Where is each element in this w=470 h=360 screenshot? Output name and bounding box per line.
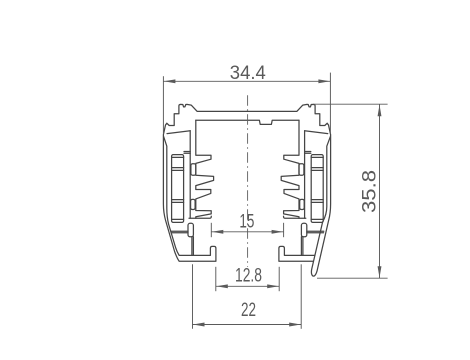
arrowhead dim 22 left (193, 323, 205, 327)
bottom shelf (189, 216, 211, 218)
dim 12.8 extension line right (278, 267, 280, 291)
spine block lower (191, 199, 196, 209)
dim 34.4 extension line left (162, 76, 164, 134)
dim 22 extension line right (300, 264, 302, 329)
centerline (247, 95, 249, 267)
profile left outer contour (163, 104, 247, 261)
arrowhead dim 35.8 top (378, 105, 382, 117)
spine block lower (300, 199, 305, 209)
shelf diagonal under ear (167, 131, 190, 134)
arrowhead dim 15 right (272, 230, 284, 234)
dim 15 extension tick left (210, 223, 212, 237)
arrowhead dim 12.8 right (267, 284, 279, 288)
svg-text:22: 22 (241, 300, 256, 321)
bridge to spine (305, 152, 311, 154)
right lip (279, 246, 315, 261)
arrowhead dim 15 left (212, 230, 224, 234)
bridge to spine (184, 152, 190, 154)
bottom block (301, 223, 306, 237)
arrowhead dim 34.4 left (164, 79, 176, 83)
arrowhead dim 22 right (289, 323, 301, 327)
dim 22 extension line left (192, 264, 194, 329)
insulator spine right face with comb fins (281, 120, 299, 218)
dimensions (163, 73, 387, 329)
insulator spine left face (189, 131, 191, 219)
rib to wall (171, 231, 188, 233)
spine block upper (299, 164, 304, 175)
dim 15 extension tick right (283, 223, 285, 237)
dim 34.4 dimension line (163, 80, 330, 82)
conductor channel column (172, 155, 184, 223)
dim 34.4 extension line right (329, 73, 331, 134)
svg-text:12.8: 12.8 (235, 265, 262, 286)
right interior comb (mirror) (281, 120, 328, 255)
svg-text:15: 15 (239, 211, 254, 232)
dim 35.8 extension line bottom (317, 277, 388, 279)
shelf diagonal under ear (305, 131, 328, 134)
dim 12.8 extension line left (215, 267, 217, 291)
spine block upper (191, 164, 196, 175)
conductor channel rungs (311, 157, 323, 219)
dim 15 dimension line (211, 231, 283, 233)
arrowhead dim 12.8 left (216, 284, 228, 288)
dim 35.8 dimension line (379, 104, 381, 278)
arrowhead dim 34.4 right (318, 79, 330, 83)
bottom block (188, 223, 193, 237)
svg-text:35.8: 35.8 (360, 170, 381, 213)
left interior comb (167, 120, 214, 255)
bottom shelf (284, 216, 306, 218)
conductor channel column (311, 155, 323, 223)
stem to lip (192, 237, 194, 256)
profile right outer contour with tail (247, 104, 331, 276)
stem to lip (301, 237, 303, 256)
rib to wall (307, 231, 324, 233)
svg-text:34.4: 34.4 (230, 63, 266, 84)
insulator spine right face with comb fins (196, 120, 214, 218)
cap underside with key notch (196, 120, 299, 124)
dim 12.8 dimension line (216, 285, 279, 287)
dim 22 dimension line (193, 324, 302, 326)
conductor channel rungs (172, 157, 184, 219)
dim 35.8 extension line top (313, 103, 387, 105)
arrowhead dim 35.8 bottom (378, 266, 382, 278)
insulator spine left face (304, 131, 306, 219)
